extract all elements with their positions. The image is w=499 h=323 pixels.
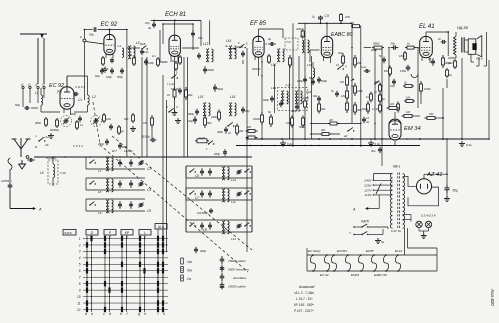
wire vert x84 left bbox=[83, 30, 85, 101]
wire ECH81 anode bbox=[174, 20, 176, 35]
svg-text:L1: L1 bbox=[35, 91, 39, 95]
wire vertical x389 bbox=[388, 47, 390, 108]
svg-text:EM34: EM34 bbox=[351, 273, 359, 277]
svg-text:7-47: 7-47 bbox=[285, 84, 291, 88]
res 500k col x134 bbox=[133, 56, 135, 58]
legend cap 500V bbox=[221, 265, 223, 268]
speaker cone bbox=[477, 36, 482, 39]
wire vertical x489 bbox=[488, 60, 490, 139]
svg-text:EM 34: EM 34 bbox=[404, 126, 421, 132]
cap 500p osc bbox=[214, 84, 216, 87]
switch 12 g bbox=[337, 68, 338, 69]
wire osc nest top bbox=[154, 19, 201, 21]
osc grid box bbox=[160, 30, 168, 62]
bank A row 3 coil pair bbox=[106, 200, 108, 213]
wire fe mesh bbox=[41, 111, 60, 113]
res 1a fe bbox=[76, 120, 78, 122]
svg-text:Ш-4 Б: Ш-4 Б bbox=[198, 136, 205, 140]
electrolytic arc bbox=[411, 74, 418, 78]
svg-text:Asa 820: Asa 820 bbox=[490, 288, 495, 306]
svg-text:50k: 50k bbox=[321, 107, 326, 111]
svg-text:nΩ: nΩ bbox=[366, 121, 369, 124]
cap 50u em bbox=[379, 147, 381, 150]
res 2M eabc bbox=[328, 123, 331, 125]
wire vertical x210 bbox=[209, 20, 211, 45]
res 21o right bbox=[379, 103, 381, 106]
svg-text:EC 92: EC 92 bbox=[320, 273, 329, 277]
res 2M corner bbox=[351, 25, 353, 27]
cap 500p fm2 bbox=[280, 101, 282, 104]
res 50o l17 bbox=[268, 54, 270, 56]
junction dots buses bbox=[174, 20, 176, 22]
dashed trimmer box 7-17 bbox=[285, 38, 298, 50]
ground lamps bbox=[423, 233, 425, 236]
cap 10p el bbox=[393, 79, 395, 82]
capacitor C9 bbox=[320, 16, 322, 18]
svg-text:L12: L12 bbox=[231, 237, 236, 241]
res B1500p bbox=[56, 118, 58, 120]
speaker voice coil bbox=[472, 43, 476, 50]
cap 2a el41 bbox=[432, 58, 434, 61]
svg-text:20α: 20α bbox=[390, 42, 396, 46]
connector circle on bus bbox=[26, 156, 29, 159]
bank B row 2 frame bbox=[186, 187, 252, 189]
primary winding zigzag bbox=[453, 36, 456, 55]
wire vertical link x147 bbox=[146, 57, 148, 157]
switch table columns bbox=[86, 236, 88, 312]
res 20k osc bbox=[175, 61, 177, 63]
cap 2n spk bbox=[441, 41, 443, 43]
em34 arc bbox=[389, 121, 401, 124]
svg-text:100p: 100p bbox=[187, 119, 194, 123]
res col347b bbox=[346, 100, 348, 103]
svg-text:L13: L13 bbox=[203, 42, 209, 46]
cathode cap ec92t bbox=[111, 58, 113, 60]
wire anode up bbox=[66, 76, 68, 87]
variable cap V2 bbox=[93, 120, 95, 122]
svg-text:19: 19 bbox=[45, 143, 49, 147]
cap 50u eabc bbox=[312, 79, 314, 82]
svg-text:V H F 2: V H F 2 bbox=[75, 85, 85, 89]
legend cap 2500V bbox=[221, 282, 223, 285]
svg-text:½w: ½w bbox=[187, 269, 193, 273]
svg-text:L19: L19 bbox=[271, 86, 276, 90]
wire vertical x305 bbox=[304, 23, 306, 139]
res 200 ech2 bbox=[218, 110, 220, 113]
svg-text:A: A bbox=[352, 208, 356, 212]
svg-text:1500V paбer: 1500V paбer bbox=[228, 259, 247, 263]
bank B row 1 coil pair bbox=[222, 167, 224, 180]
tube pins ech81 bbox=[170, 56, 172, 61]
switch el area bbox=[374, 83, 375, 84]
cap mid fe bbox=[110, 124, 112, 127]
svg-text:G: G bbox=[21, 83, 24, 87]
wire EABC80 anode bbox=[326, 23, 328, 36]
svg-text:54p: 54p bbox=[198, 36, 203, 40]
svg-text:C7: C7 bbox=[195, 196, 199, 200]
svg-text:51k: 51k bbox=[429, 112, 434, 116]
coil L1 bbox=[41, 95, 43, 105]
svg-text:еđ: еđ bbox=[344, 134, 348, 138]
bank A row 3 switch bbox=[89, 204, 90, 205]
triple diode triode EABC80 bbox=[321, 36, 332, 57]
volume pot 1M bbox=[346, 74, 348, 77]
svg-text:10p: 10p bbox=[390, 84, 395, 88]
res 180k el bbox=[404, 51, 406, 53]
pentode EF85 bbox=[253, 36, 264, 57]
anode stem ec92t bbox=[109, 30, 111, 35]
svg-text:500k: 500k bbox=[299, 125, 305, 129]
svg-text:100p: 100p bbox=[106, 75, 112, 79]
res 100o osc bbox=[179, 55, 181, 57]
svg-text:C1: C1 bbox=[78, 98, 82, 102]
res 2M eabc2 bbox=[320, 133, 323, 135]
svg-text:100Ω: 100Ω bbox=[253, 117, 261, 121]
svg-text:KP: KP bbox=[125, 231, 130, 235]
cap 5n el bbox=[383, 57, 385, 60]
switch table contacts bbox=[86, 242, 88, 247]
wire vertical x360 bbox=[360, 26, 362, 147]
switch mixer bbox=[141, 48, 142, 49]
lamp wires bbox=[411, 220, 419, 222]
wire grid to tube bbox=[86, 42, 104, 45]
svg-text:1α: 1α bbox=[366, 95, 369, 99]
cap 20a grid bbox=[391, 47, 394, 49]
svg-text:8: 8 bbox=[79, 282, 81, 286]
svg-text:200p: 200p bbox=[213, 152, 220, 156]
svg-text:5: 5 bbox=[79, 263, 81, 267]
svg-text:V V 1 2: V V 1 2 bbox=[73, 144, 83, 148]
grid cap 10p B bbox=[153, 22, 155, 24]
res 180k bbox=[354, 83, 356, 86]
wire anode to xfmr bbox=[426, 31, 448, 33]
wire vertical x382 bbox=[381, 48, 383, 166]
bank B row 2 trimmer bbox=[236, 193, 238, 195]
heater 63V wires down bbox=[404, 228, 406, 255]
svg-text:L20: L20 bbox=[306, 90, 311, 94]
tap switch lever bbox=[376, 184, 381, 195]
svg-text:Kω 5: Kω 5 bbox=[476, 57, 483, 61]
cap 64p fe2 bbox=[119, 143, 121, 146]
bank B row 3 coil pair bbox=[222, 221, 224, 234]
cap 01u el bbox=[364, 70, 367, 72]
svg-text:Б1: Б1 bbox=[129, 53, 133, 57]
svg-text:10k: 10k bbox=[406, 96, 411, 100]
output pentode EL41 bbox=[420, 36, 433, 57]
res 1m osc bbox=[157, 57, 159, 59]
wire vertical link x166 bbox=[166, 100, 168, 252]
svg-text:2n: 2n bbox=[437, 37, 442, 41]
svg-text:200μ: 200μ bbox=[296, 79, 303, 83]
svg-text:20p: 20p bbox=[244, 109, 250, 113]
cap row y70 c bbox=[121, 68, 123, 71]
wire vertical link x163 bbox=[162, 75, 164, 252]
svg-text:б 3α: б 3α bbox=[287, 142, 293, 146]
svg-text:1μ: 1μ bbox=[121, 129, 125, 133]
svg-text:1: 1 bbox=[79, 237, 81, 241]
res 50k fm3 bbox=[318, 102, 320, 105]
tube pins eabc80 bbox=[323, 57, 325, 61]
svg-text:10: 10 bbox=[77, 295, 81, 299]
svg-text:200p: 200p bbox=[199, 249, 207, 253]
variable cap V1 bbox=[63, 120, 65, 122]
res 5a ef bbox=[270, 114, 272, 117]
svg-text:500p: 500p bbox=[217, 87, 224, 91]
transformer core bbox=[461, 37, 463, 52]
svg-text:3a: 3a bbox=[148, 26, 152, 30]
legend resistor quarter watt bbox=[181, 258, 184, 264]
svg-text:50k: 50k bbox=[207, 121, 212, 125]
svg-text:KATK: KATK bbox=[64, 231, 72, 235]
svg-text:9: 9 bbox=[79, 288, 81, 292]
svg-text:L5: L5 bbox=[136, 41, 140, 45]
svg-text:L16: L16 bbox=[230, 95, 236, 99]
wire antenna feeders bbox=[37, 38, 39, 84]
svg-text:KF 165 - 583ᵐ: KF 165 - 583ᵐ bbox=[294, 303, 314, 307]
cap 100p l5 bbox=[145, 59, 147, 62]
wire grid line y476 bbox=[364, 47, 371, 49]
ground ech bbox=[174, 100, 176, 110]
bank A row 1 frame bbox=[86, 156, 145, 158]
cap 10p l5 bbox=[141, 49, 143, 52]
svg-text:7-16: 7-16 bbox=[60, 171, 66, 175]
tube pins ec92h bbox=[63, 109, 65, 113]
svg-text:5α: 5α bbox=[268, 110, 272, 114]
res 300a spk bbox=[454, 59, 456, 61]
svg-text:240V: 240V bbox=[363, 179, 372, 183]
svg-text:500p: 500p bbox=[117, 75, 123, 79]
IF can L20 bbox=[295, 91, 297, 104]
res 500k row bbox=[302, 116, 304, 119]
svg-text:220V: 220V bbox=[363, 183, 372, 187]
res 10k eabc bbox=[342, 53, 344, 56]
res 1M em2 bbox=[402, 115, 405, 117]
svg-text:e: e bbox=[120, 312, 122, 316]
magic eye EM34 bbox=[389, 119, 401, 140]
bank B row 2 switch right bbox=[244, 193, 245, 194]
svg-text:(½): (½) bbox=[57, 90, 62, 94]
legend cap 1500V bbox=[221, 256, 223, 259]
svg-text:~: ~ bbox=[349, 231, 352, 236]
bank A row 1 caps bbox=[119, 159, 121, 162]
wire az41 right loop bbox=[408, 187, 439, 206]
svg-text:Ш A: Ш A bbox=[158, 225, 165, 229]
wire curved drop bbox=[8, 158, 12, 180]
wire vertical link x142 bbox=[141, 57, 143, 157]
cap L13 trim bbox=[198, 53, 200, 56]
pilot lamp 2 bbox=[425, 221, 431, 227]
wires IF1 bbox=[182, 47, 199, 49]
switch table header O bbox=[86, 230, 98, 236]
svg-text:50μ: 50μ bbox=[309, 76, 314, 80]
switch tone bbox=[347, 130, 348, 131]
wire EM34 top bbox=[394, 112, 396, 118]
res 300 right bbox=[379, 83, 381, 86]
switch m4 bbox=[208, 143, 209, 144]
svg-text:M1Б: M1Б bbox=[140, 42, 146, 46]
svg-text:500p: 500p bbox=[263, 98, 269, 102]
svg-text:k: k bbox=[163, 312, 165, 316]
svg-text:2М: 2М bbox=[320, 128, 326, 132]
svg-text:Б1500p: Б1500p bbox=[50, 128, 59, 132]
wire osc nest inner bbox=[163, 23, 193, 25]
wire y28 over tube bbox=[84, 29, 92, 31]
svg-text:ЕCH81: ЕCH81 bbox=[337, 249, 347, 253]
svg-text:20k: 20k bbox=[356, 61, 362, 65]
switch band fe bbox=[38, 140, 39, 141]
res 10k col347 bbox=[346, 88, 348, 91]
legend cap styroflex bbox=[221, 273, 223, 276]
res 100k fm bbox=[304, 99, 306, 102]
tube pins el41 bbox=[421, 57, 423, 61]
svg-text:12: 12 bbox=[336, 63, 339, 67]
svg-text:L7: L7 bbox=[98, 169, 102, 173]
legend resistor one watt bbox=[181, 275, 184, 281]
cap 20p L16 bbox=[242, 107, 244, 110]
switch F g before EF85 bbox=[239, 47, 240, 48]
svg-text:1M: 1M bbox=[406, 110, 411, 114]
svg-text:150α: 150α bbox=[400, 69, 406, 73]
capacitor 50p series bbox=[93, 29, 95, 31]
cap 300p L15 bbox=[196, 109, 198, 112]
svg-text:б,3α: б,3α bbox=[375, 142, 381, 146]
cap 50u filter bbox=[446, 185, 448, 188]
svg-text:б,3α: б,3α bbox=[466, 143, 472, 147]
wire vert x127 bbox=[126, 30, 128, 158]
svg-text:HД-58: HД-58 bbox=[457, 26, 469, 30]
bank B row 3 trimmer bbox=[236, 225, 238, 227]
ground fe bbox=[50, 133, 52, 136]
svg-text:¼w: ¼w bbox=[187, 260, 193, 264]
wire vertical x352 bbox=[351, 23, 353, 123]
primary top wire bbox=[373, 173, 392, 175]
svg-text:11: 11 bbox=[77, 301, 81, 305]
grid connector circle bbox=[83, 39, 86, 42]
res 300o el41 bbox=[442, 55, 444, 58]
tube pins ef85 bbox=[254, 57, 256, 61]
voltage taps bbox=[373, 179, 392, 181]
res 500o grid bbox=[372, 47, 374, 49]
wire EF85 anode bbox=[258, 29, 260, 36]
res 300a bbox=[45, 117, 47, 119]
svg-text:2k: 2k bbox=[403, 81, 407, 85]
svg-text:EF 85: EF 85 bbox=[250, 21, 267, 27]
wire vertical x262 bbox=[261, 62, 263, 139]
svg-text:EC 92: EC 92 bbox=[49, 83, 64, 89]
svg-text:EL41: EL41 bbox=[395, 249, 403, 253]
ground funnel bbox=[21, 160, 23, 164]
wire main bus y139 bbox=[246, 138, 489, 140]
res 1k grid bbox=[405, 47, 407, 49]
svg-text:500Ω: 500Ω bbox=[373, 42, 380, 46]
cap 200p fe bbox=[79, 116, 81, 119]
res 1k ech bbox=[174, 87, 176, 90]
res 2M h1 bbox=[246, 130, 249, 132]
svg-text:300p: 300p bbox=[217, 130, 223, 134]
switch table header stubs bbox=[91, 235, 93, 239]
bank B row 1 switch right bbox=[244, 171, 245, 172]
cap row y70 a bbox=[101, 68, 103, 71]
svg-text:30k: 30k bbox=[124, 117, 129, 121]
antenna bbox=[14, 139, 21, 149]
svg-text:L 19,7 - 51ᵐ: L 19,7 - 51ᵐ bbox=[296, 297, 313, 301]
svg-text:L2: L2 bbox=[92, 95, 96, 99]
res FM el bbox=[389, 66, 391, 69]
bank A row 2 frame bbox=[86, 177, 145, 179]
svg-text:c: c bbox=[103, 312, 105, 316]
wire bus y147 bbox=[236, 145, 420, 147]
box M4 bbox=[195, 140, 197, 142]
svg-text:5n: 5n bbox=[379, 54, 382, 58]
res 51k em bbox=[425, 117, 428, 119]
cap 500p fm1 bbox=[271, 96, 273, 99]
svg-text:2Πk: 2Πk bbox=[344, 15, 351, 19]
svg-text:0,3 A/0,3 A: 0,3 A/0,3 A bbox=[421, 214, 436, 218]
svg-text:O: O bbox=[91, 231, 94, 235]
svg-text:EC 92: EC 92 bbox=[101, 22, 118, 28]
cap 200p m4 bbox=[224, 149, 226, 152]
svg-text:ρ0a: ρ0a bbox=[447, 61, 453, 65]
switch table header L bbox=[139, 230, 151, 236]
res 300o col355 bbox=[354, 102, 356, 105]
coil L2 bbox=[88, 95, 90, 105]
wire xfmr to az41 anode bbox=[403, 176, 417, 186]
svg-text:L17: L17 bbox=[271, 63, 277, 67]
svg-text:EABC 80: EABC 80 bbox=[331, 32, 352, 38]
wire top right bus bbox=[298, 22, 352, 24]
res 200k below bus bbox=[302, 30, 304, 32]
capacitor 10/500p bbox=[9, 182, 11, 185]
res 100a ef bbox=[261, 112, 263, 115]
cap 200p fe2 bbox=[106, 139, 108, 142]
wire vertical x311 bbox=[311, 56, 313, 139]
svg-text:L8: L8 bbox=[98, 190, 102, 194]
svg-text:10p: 10p bbox=[144, 50, 149, 54]
svg-text:10k: 10k bbox=[341, 94, 346, 98]
svg-text:5a: 5a bbox=[381, 240, 385, 244]
svg-text:100,500p: 100,500p bbox=[197, 211, 208, 215]
svg-text:2α: 2α bbox=[427, 57, 431, 61]
bank B row 1 frame bbox=[186, 165, 252, 167]
svg-text:L14: L14 bbox=[226, 39, 232, 43]
svg-text:10/500p: 10/500p bbox=[1, 179, 12, 183]
svg-text:4: 4 bbox=[79, 256, 81, 260]
ground b5a bbox=[377, 238, 379, 241]
svg-text:M-7: M-7 bbox=[112, 149, 117, 153]
arrow A power bbox=[367, 208, 379, 210]
svg-text:EC 92(1): EC 92(1) bbox=[308, 249, 320, 253]
res 20k top bbox=[340, 13, 342, 15]
wire vertical x443 bbox=[442, 88, 444, 139]
svg-text:Asustused: Asustused bbox=[298, 285, 315, 289]
wire vertical link x1876 bbox=[187, 57, 189, 157]
wire vertical link x184 bbox=[183, 57, 185, 157]
bank A row 1 trimmer bbox=[138, 162, 140, 164]
pilot lamp 1 bbox=[416, 221, 422, 227]
svg-text:100k: 100k bbox=[286, 121, 292, 125]
svg-text:100p: 100p bbox=[148, 61, 154, 65]
res 1M fe bbox=[118, 125, 120, 127]
res 10o col bbox=[103, 113, 105, 115]
rectifier AZ41 bbox=[416, 179, 431, 194]
cap 200p bankB bbox=[195, 247, 197, 250]
svg-text:O: O bbox=[28, 83, 31, 87]
svg-text:110V: 110V bbox=[365, 193, 373, 197]
bank B row 1 switch bbox=[189, 171, 190, 172]
svg-text:P 167 - 2017ᵐ: P 167 - 2017ᵐ bbox=[294, 309, 314, 313]
ground fm bbox=[282, 141, 284, 144]
svg-text:3α: 3α bbox=[225, 44, 228, 48]
